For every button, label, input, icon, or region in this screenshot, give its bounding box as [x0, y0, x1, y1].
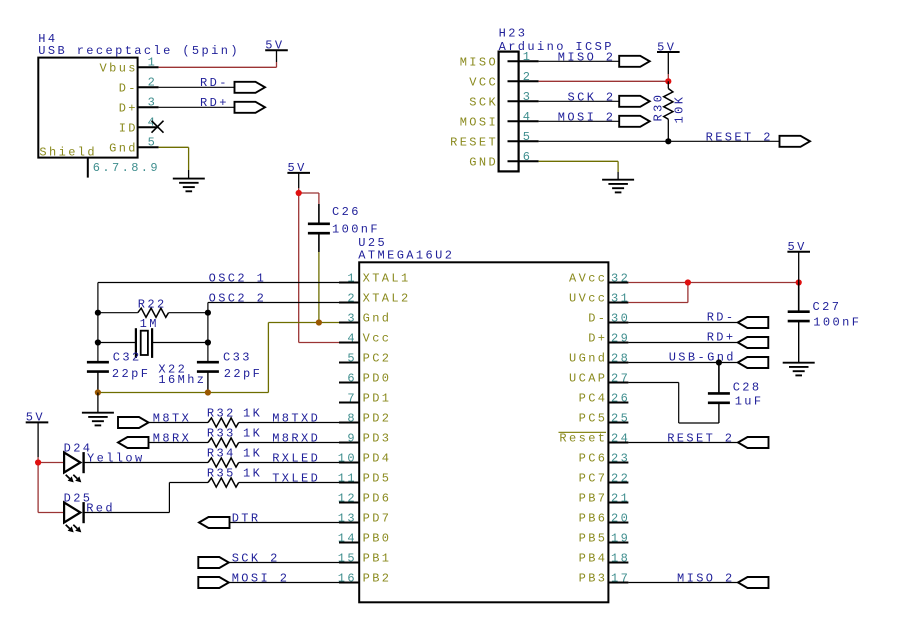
- svg-text:GND: GND: [469, 155, 498, 169]
- port SCK_2 (arrow, bottom): [198, 557, 229, 568]
- wire GND bus (crystal): [98, 323, 339, 393]
- port SCK_2 (output arrow): [619, 96, 650, 107]
- wire M8TX to R32: [149, 422, 209, 424]
- svg-text:7: 7: [347, 391, 357, 405]
- wire 5V stem (right): [798, 252, 800, 283]
- svg-text:PC2: PC2: [363, 351, 392, 365]
- power 5V (center): [287, 161, 310, 175]
- svg-text:21: 21: [611, 491, 630, 505]
- svg-text:PB7: PB7: [579, 491, 608, 505]
- svg-text:RESET_2: RESET_2: [667, 431, 734, 445]
- svg-text:SCK_2: SCK_2: [232, 551, 280, 565]
- pin 8 PD2: [339, 411, 391, 425]
- svg-text:ATMEGA16U2: ATMEGA16U2: [358, 248, 454, 262]
- svg-text:12: 12: [338, 491, 357, 505]
- svg-text:PD2: PD2: [363, 411, 392, 425]
- port MISO_2 (chip, arrow): [738, 577, 769, 588]
- svg-text:1uF: 1uF: [735, 394, 764, 408]
- resistor R33: [208, 438, 239, 447]
- svg-text:30: 30: [611, 311, 630, 325]
- port RD+ (output arrow): [235, 102, 266, 113]
- svg-text:OSC2_2: OSC2_2: [209, 291, 267, 305]
- junction node C33/GND: [205, 389, 211, 395]
- svg-text:C28: C28: [733, 381, 762, 395]
- wire DTR net: [230, 522, 340, 524]
- svg-text:R30: R30: [652, 93, 666, 122]
- power 5V (ICSP): [657, 40, 680, 54]
- pin 15 PB1: [338, 551, 392, 565]
- svg-text:5: 5: [347, 351, 357, 365]
- svg-text:RESET_2: RESET_2: [706, 130, 773, 144]
- svg-text:Reset: Reset: [559, 431, 607, 445]
- svg-text:10: 10: [338, 451, 357, 465]
- pin 28 UGnd: [569, 351, 630, 365]
- port RESET_2 (output arrow): [780, 136, 811, 147]
- connector H4 USB receptacle (5pin): [38, 32, 240, 175]
- wire VCC net (red): [539, 74, 669, 81]
- pin 10 PD4: [338, 451, 392, 465]
- svg-text:MISO_2: MISO_2: [558, 50, 616, 64]
- wire C28 bottom lead + UCAP net: [628, 383, 719, 424]
- svg-text:MOSI: MOSI: [460, 115, 498, 129]
- wire R30 bottom lead: [667, 119, 669, 141]
- port USB-Gnd (arrow): [738, 357, 769, 368]
- pin 12 PD6: [338, 491, 392, 505]
- wire RXLED net (D24 to R34): [84, 462, 208, 464]
- wire MOSI_2 net: [229, 582, 339, 584]
- svg-text:23: 23: [611, 451, 630, 465]
- svg-text:1: 1: [347, 271, 357, 285]
- wire SCK_2 net: [229, 562, 339, 564]
- svg-text:16: 16: [338, 571, 357, 585]
- pin 31 UVcc: [569, 291, 630, 305]
- svg-text:PC4: PC4: [579, 391, 608, 405]
- svg-text:1K: 1K: [243, 447, 262, 461]
- pin 2 XTAL2: [339, 291, 411, 305]
- svg-text:PB3: PB3: [579, 571, 608, 585]
- junction node C26/GND: [316, 319, 322, 325]
- svg-text:RESET: RESET: [450, 135, 498, 149]
- pin 27 UCAP: [569, 371, 630, 385]
- svg-text:3: 3: [523, 90, 533, 104]
- svg-text:SCK_2: SCK_2: [568, 90, 616, 104]
- wire crystal row: [98, 342, 208, 344]
- svg-text:22pF: 22pF: [112, 367, 150, 381]
- svg-text:PB6: PB6: [579, 511, 608, 525]
- svg-text:1K: 1K: [243, 407, 262, 421]
- LED D25: [64, 502, 84, 532]
- pin 13 PD7: [338, 511, 392, 525]
- svg-text:6: 6: [523, 150, 533, 164]
- svg-text:MOSI_2: MOSI_2: [232, 571, 290, 585]
- svg-text:C32: C32: [113, 351, 142, 365]
- port RD+ (chip, arrow): [738, 337, 769, 348]
- svg-text:PD7: PD7: [363, 511, 392, 525]
- svg-text:PD5: PD5: [363, 471, 392, 485]
- wire OSC2_1 net: [98, 283, 339, 363]
- connector H23 Arduino ICSP: [450, 27, 614, 172]
- svg-text:1K: 1K: [243, 427, 262, 441]
- pin 23 PC6: [579, 451, 631, 465]
- svg-text:3: 3: [347, 311, 357, 325]
- svg-text:R34: R34: [207, 447, 236, 461]
- junction node C32/GND: [95, 389, 101, 395]
- svg-text:22: 22: [611, 471, 630, 485]
- wire PB3 net: [628, 582, 738, 584]
- pin 14 PB0: [338, 531, 392, 545]
- wire RD+ net: [159, 106, 235, 108]
- wire C33 bottom lead: [207, 372, 209, 393]
- svg-text:UGnd: UGnd: [569, 351, 607, 365]
- junction node 5V/C26: [296, 190, 302, 196]
- svg-text:2: 2: [523, 70, 533, 84]
- wire R22 row: [98, 312, 208, 314]
- junction node RESET/R30: [665, 138, 671, 144]
- svg-text:29: 29: [611, 331, 630, 345]
- pin 4 Vcc: [339, 331, 391, 345]
- svg-text:4: 4: [523, 110, 533, 124]
- svg-text:D+: D+: [119, 101, 138, 115]
- wire C26 top lead: [318, 204, 320, 224]
- wire 5V net to C26 and Vcc pin 4: [299, 188, 339, 343]
- pin 32 AVcc: [569, 271, 630, 285]
- svg-text:USB receptacle (5pin): USB receptacle (5pin): [38, 44, 240, 58]
- wire M8TXD to pin: [239, 422, 339, 424]
- svg-text:PC5: PC5: [579, 411, 608, 425]
- wire Reset net: [628, 442, 738, 444]
- svg-text:22pF: 22pF: [224, 367, 262, 381]
- svg-text:2: 2: [148, 75, 158, 89]
- capacitor C27: [788, 312, 810, 321]
- wire 5V stem (left): [37, 422, 39, 457]
- pin 17 PB3: [579, 571, 631, 585]
- svg-text:M8RX: M8RX: [153, 431, 191, 445]
- svg-text:DTR: DTR: [232, 511, 261, 525]
- svg-text:C33: C33: [223, 351, 252, 365]
- svg-text:20: 20: [611, 511, 630, 525]
- pin 9 PD3: [339, 431, 391, 445]
- pin 18 PB4: [579, 551, 631, 565]
- svg-text:M8TXD: M8TXD: [272, 411, 320, 425]
- port M8RX (input arrow): [118, 437, 149, 448]
- port MOSI_2 (arrow, bottom): [198, 577, 229, 588]
- svg-text:Red: Red: [86, 501, 115, 515]
- wire 5V stem: [276, 50, 278, 62]
- junction nodes crystal row: [95, 339, 101, 345]
- svg-text:24: 24: [611, 431, 630, 445]
- pin 26 PC4: [579, 391, 631, 405]
- pin 30 D-: [588, 311, 630, 325]
- svg-text:1: 1: [148, 55, 158, 69]
- svg-text:PB4: PB4: [579, 551, 608, 565]
- wire C27 top lead: [798, 283, 800, 312]
- junction node VCC/5V: [665, 78, 671, 84]
- no-connect X on ID pin 4: [152, 121, 164, 133]
- wire M8RXD to pin: [239, 442, 339, 444]
- svg-text:2: 2: [347, 291, 357, 305]
- resistor R30: [664, 89, 673, 120]
- svg-text:M8TX: M8TX: [153, 411, 191, 425]
- svg-text:18: 18: [611, 551, 630, 565]
- resistor R22: [138, 308, 169, 317]
- junction node 5V/D24: [35, 459, 41, 465]
- port RESET_2 (chip, arrow): [738, 437, 769, 448]
- pin 29 D+: [588, 331, 630, 345]
- capacitor C26: [308, 224, 330, 233]
- wire D+ net: [628, 342, 737, 344]
- svg-text:ID: ID: [119, 121, 138, 135]
- port MOSI_2 (output arrow): [619, 116, 650, 127]
- svg-text:28: 28: [611, 351, 630, 365]
- port RD- (chip, arrow): [738, 317, 769, 328]
- svg-text:13: 13: [338, 511, 357, 525]
- resistor R32: [208, 418, 239, 427]
- svg-text:AVcc: AVcc: [569, 271, 607, 285]
- svg-text:1: 1: [523, 50, 533, 64]
- svg-text:M8RXD: M8RXD: [272, 431, 320, 445]
- svg-text:VCC: VCC: [469, 75, 498, 89]
- svg-text:UVcc: UVcc: [569, 291, 607, 305]
- svg-text:MISO: MISO: [460, 55, 498, 69]
- pin 24 Reset: [559, 431, 631, 445]
- svg-text:H23: H23: [499, 27, 528, 41]
- ground (ICSP): [602, 180, 634, 193]
- wire AVcc 5V net (red): [628, 283, 798, 303]
- wire 5V stem (ICSP): [667, 52, 669, 74]
- ground (crystal): [82, 413, 114, 426]
- wire GND net from USB Gnd pin 5: [159, 147, 189, 178]
- svg-text:PC7: PC7: [579, 471, 608, 485]
- wire R30 top lead: [667, 81, 669, 88]
- capacitor C33: [197, 362, 219, 371]
- svg-text:15: 15: [338, 551, 357, 565]
- svg-text:Shield: Shield: [39, 146, 97, 160]
- wire OSC2_2 net: [208, 303, 339, 363]
- wire shield stub: [87, 158, 89, 178]
- svg-text:RXLED: RXLED: [272, 451, 320, 465]
- wire M8RX to R33: [149, 442, 209, 444]
- svg-text:C26: C26: [332, 205, 361, 219]
- port M8TX (output arrow): [118, 417, 149, 428]
- svg-text:6.7.8.9: 6.7.8.9: [93, 161, 160, 175]
- wire TXLED net (D25 to R35): [84, 483, 208, 513]
- svg-text:11: 11: [338, 471, 357, 485]
- wire RXLED to pin: [239, 462, 339, 464]
- wire 5V stem (center): [298, 173, 300, 188]
- wire 5V net from Vbus pin 1: [159, 62, 277, 67]
- svg-text:PC6: PC6: [579, 451, 608, 465]
- svg-text:17: 17: [611, 571, 630, 585]
- svg-text:5: 5: [523, 130, 533, 144]
- svg-text:PD4: PD4: [363, 451, 392, 465]
- wire ground stem (crystal): [97, 393, 99, 413]
- svg-text:C27: C27: [813, 300, 842, 314]
- wire C28 top lead: [718, 363, 720, 394]
- port RD- (output arrow): [235, 82, 266, 93]
- svg-text:8: 8: [347, 411, 357, 425]
- pin 6 PD0: [339, 371, 391, 385]
- pin 5 PC2: [339, 351, 391, 365]
- wire UGnd net: [628, 362, 737, 364]
- svg-text:PD0: PD0: [363, 371, 392, 385]
- pin 1 XTAL1: [339, 271, 411, 285]
- svg-text:XTAL1: XTAL1: [363, 271, 411, 285]
- svg-text:MISO_2: MISO_2: [677, 571, 735, 585]
- wire GND net from C26 to Gnd pin 3: [318, 252, 320, 323]
- pin 16 PB2: [338, 571, 392, 585]
- svg-text:Gnd: Gnd: [363, 311, 392, 325]
- svg-text:9: 9: [347, 431, 357, 445]
- svg-text:D+: D+: [588, 331, 607, 345]
- LED D24: [64, 452, 84, 482]
- pin 3 Gnd: [339, 311, 391, 325]
- wire C32 bottom lead: [97, 372, 99, 393]
- ground (C27): [783, 363, 815, 376]
- svg-text:Vbus: Vbus: [100, 61, 138, 75]
- svg-text:R22: R22: [138, 298, 167, 312]
- svg-text:Vcc: Vcc: [363, 331, 392, 345]
- svg-text:25: 25: [611, 411, 630, 425]
- svg-text:3: 3: [148, 95, 158, 109]
- power 5V (right): [787, 240, 810, 254]
- junction node UGnd/C28: [716, 359, 722, 365]
- pin 19 PB5: [579, 531, 631, 545]
- port DTR (input arrow): [199, 517, 230, 528]
- wire RESET net: [539, 140, 780, 142]
- svg-text:PD6: PD6: [363, 491, 392, 505]
- port MISO_2 (output arrow): [619, 56, 650, 67]
- pin 21 PB7: [579, 491, 631, 505]
- pin 25 PC5: [579, 411, 631, 425]
- pin 11 PD5: [338, 471, 392, 485]
- svg-text:TXLED: TXLED: [272, 471, 320, 485]
- wire C26 bottom lead: [318, 233, 320, 252]
- svg-text:100nF: 100nF: [813, 316, 861, 330]
- wire D- net: [628, 322, 737, 324]
- svg-text:19: 19: [611, 531, 630, 545]
- svg-text:16Mhz: 16Mhz: [158, 373, 206, 387]
- svg-text:27: 27: [611, 371, 630, 385]
- junction node UVcc/AVcc: [685, 279, 691, 285]
- wire GND net (ICSP): [539, 161, 619, 179]
- svg-text:32: 32: [611, 271, 630, 285]
- svg-text:Gnd: Gnd: [109, 141, 138, 155]
- svg-text:PD3: PD3: [363, 431, 392, 445]
- wire MISO net: [539, 60, 620, 62]
- wire 5V net to LEDs: [38, 457, 64, 513]
- svg-text:6: 6: [347, 371, 357, 385]
- svg-text:MOSI_2: MOSI_2: [558, 110, 616, 124]
- pin 22 PC7: [579, 471, 631, 485]
- svg-text:Yellow: Yellow: [87, 451, 145, 465]
- wire MOSI net: [539, 120, 620, 122]
- power 5V (top left): [265, 39, 288, 53]
- svg-text:PB5: PB5: [579, 531, 608, 545]
- svg-text:1M: 1M: [140, 317, 159, 331]
- svg-text:UCAP: UCAP: [569, 371, 607, 385]
- svg-text:OSC2_1: OSC2_1: [209, 271, 267, 285]
- junction node AVcc/5V: [796, 279, 802, 285]
- resistor R35: [208, 478, 239, 487]
- svg-text:XTAL2: XTAL2: [363, 291, 411, 305]
- ground (USB): [173, 179, 205, 192]
- wire RD- net: [159, 86, 235, 88]
- svg-text:4: 4: [347, 331, 357, 345]
- svg-text:5: 5: [148, 135, 158, 149]
- svg-text:R32: R32: [207, 407, 236, 421]
- svg-text:PB1: PB1: [363, 551, 392, 565]
- crystal X22: [136, 328, 152, 358]
- svg-text:PB2: PB2: [363, 571, 392, 585]
- wire SCK net: [539, 100, 620, 102]
- svg-text:D-: D-: [119, 81, 138, 95]
- svg-text:R35: R35: [207, 467, 236, 481]
- capacitor C28: [708, 393, 730, 402]
- wire C27 bottom lead: [798, 321, 800, 363]
- svg-text:31: 31: [611, 291, 630, 305]
- svg-text:PD1: PD1: [363, 391, 392, 405]
- svg-text:PB0: PB0: [363, 531, 392, 545]
- svg-text:R33: R33: [207, 427, 236, 441]
- pin 7 PD1: [339, 391, 391, 405]
- svg-text:14: 14: [338, 531, 357, 545]
- wire TXLED to pin: [239, 482, 339, 484]
- svg-text:D-: D-: [588, 311, 607, 325]
- svg-text:SCK: SCK: [469, 95, 498, 109]
- IC U25 ATMEGA16U2: [358, 236, 608, 602]
- pin 20 PB6: [579, 511, 631, 525]
- svg-text:26: 26: [611, 391, 630, 405]
- svg-text:1K: 1K: [243, 467, 262, 481]
- junction nodes R22 row: [95, 310, 101, 316]
- resistor R34: [208, 458, 239, 467]
- power 5V (left): [26, 411, 49, 425]
- svg-text:100nF: 100nF: [332, 223, 380, 237]
- capacitor C32: [87, 362, 109, 371]
- svg-text:10K: 10K: [673, 95, 687, 124]
